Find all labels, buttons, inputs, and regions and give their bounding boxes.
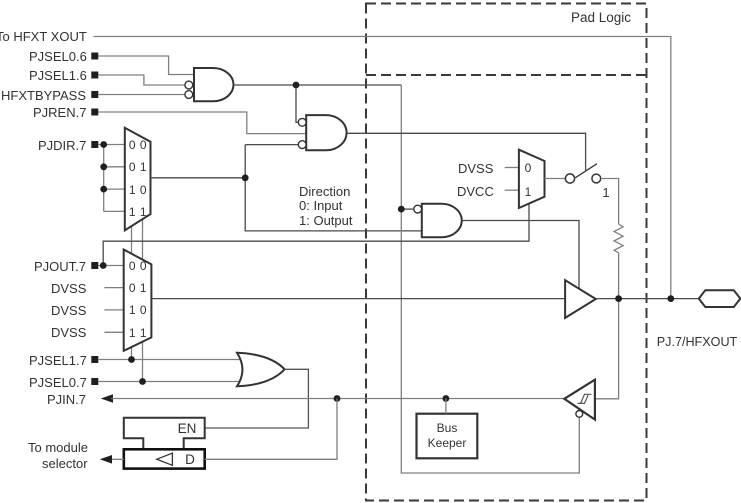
wire pad net [596,298,699,300]
output buffer U1 [565,280,596,318]
wire bus keeper stub [445,399,447,414]
bubble G2 input A [298,118,306,126]
wire PJSEL0.6 to AND1 input A [98,56,194,75]
mux M2 row label 01 [129,282,147,294]
junction PJIN to D latch [334,395,341,402]
label selector [42,457,88,470]
wire D latch output to module selector [111,458,124,460]
bubble G3 input A [414,205,422,213]
mux M2 PJOUT body [124,250,152,351]
junction PJOUT.7 [100,262,107,269]
latch L1 clock triangle [157,453,173,465]
mux M3 row label 1 [524,186,531,198]
mux M2 row label 11 [129,327,147,339]
terminal square PJOUT.7 [91,262,98,269]
resistor R1 pull [614,224,623,253]
wire DVSS row 01 stub [104,287,123,289]
label Bus [437,422,458,434]
switch S1 lever [575,164,597,178]
label DVSS row 11 [51,326,86,339]
junction PJDIR row 01 [100,163,107,170]
junction G3 input A on enable net [398,206,405,213]
label PJ.7/HFXOUT [657,336,737,349]
wire PJIN.7 net [111,398,564,400]
wire PJSEL0.7 select vertical (under mux bodies) [142,217,144,382]
schmitt trigger U2 input buffer [564,380,595,420]
label Keeper [428,437,467,449]
mux M1 row label 00 [129,139,147,151]
wire G1 output [234,84,402,86]
schmitt hysteresis symbol [578,394,592,403]
bubble G1 input B [185,81,193,89]
junction G1 output [293,82,300,89]
label PJREN.7 [33,106,86,119]
dashed line Pad Logic inner top [366,74,647,76]
wire G1 output branch to AND2 input A [296,85,298,122]
wire PJSEL1.7 to OR1 input A [98,359,241,361]
junction PJIN to bus keeper [443,395,450,402]
label DVCC mux M3 [457,185,494,198]
junction pad net HFXT branch [667,295,674,302]
terminal square HFXTBYPASS [91,91,98,98]
box Bus Keeper [417,414,478,459]
label DVSS mux M3 [458,162,493,175]
bubble G1 input C [185,91,193,99]
wire D latch input from PJIN [205,399,337,460]
latch L1 EN label [178,422,197,436]
label PJIN.7 [47,393,86,406]
bubble G2 input C [298,141,306,149]
bubble schmitt enable [576,411,583,418]
label switch position 1 [602,186,609,199]
wire PJREN.7 to AND2 input B [98,112,306,134]
wire PJOUT.7 row 00 [98,265,123,267]
label PJSEL1.6 [29,69,87,82]
terminal square PJSEL0.6 [91,53,98,60]
junction PJDIR row 00 [100,141,107,148]
wire DVCC stub mux M3 [505,189,519,191]
wire PJSEL1.6 to AND1 input B [98,75,185,85]
wire PJOUT.7 to mux M3 select [103,204,529,266]
latch L1 D section [124,449,205,468]
wire OR1 output to EN [205,369,309,428]
mux M1 row label 11 [129,206,147,218]
wire direction net vertical to AND2 and AND3 [245,145,422,231]
junction direction net [242,174,249,181]
wire G1 output vertical to Schmitt enable [401,85,579,473]
wire PJDIR.7 row 11 [104,210,125,212]
wire DVSS row 11 stub [104,331,123,333]
mux M3 pull resistor select body [519,150,545,208]
wire PJSEL1.7 select vertical (under mux bodies) [131,224,133,360]
terminal square PJSEL0.7 [91,378,98,385]
label To module [28,441,88,454]
and-gate G1 (PJSEL decode) [194,68,234,101]
mux M1 row label 01 [129,161,147,173]
wire resistor to pad net and Schmitt input [595,253,619,399]
wire switch to resistor [601,179,619,225]
wire mux M2 output to output buffer [151,298,565,300]
mux M2 row label 00 [129,260,147,272]
latch L1 D label [185,453,195,467]
wire To HFXT XOUT net [94,37,671,299]
arrow PJIN.7 [101,394,113,403]
wire G3 input A stub [401,208,414,210]
latch L1 EN section [124,418,205,450]
switch S1 left contact [565,174,574,183]
label PJSEL1.7 [29,354,87,367]
wire G3 output to output buffer enable [462,221,579,289]
arrow to module selector [100,455,112,464]
terminal square PJSEL1.6 [91,72,98,79]
wire DVSS stub mux M3 [505,167,519,169]
and-gate G2 (bypass gate) [306,115,346,150]
mux M1 row label 10 [129,184,147,196]
wire PJDIR.7 row 10 [104,188,125,190]
mux M2 row label 10 [129,304,147,316]
switch S1 right contact [592,174,601,183]
wire HFXTBYPASS to AND1 input C [98,94,185,96]
terminal square PJDIR.7 [91,141,98,148]
mux M3 row label 0 [524,162,531,174]
label PJDIR.7 [38,139,86,152]
mux M1 PJDIR body [125,128,151,231]
wire direction net to AND2 input C bubble [245,144,298,146]
label Pad Logic [570,11,630,25]
label PJSEL0.6 [29,50,87,63]
wire PJDIR.7 bus vertical [103,145,105,212]
label PJOUT.7 [34,260,86,273]
wire mux M3 output to switch [545,178,566,180]
junction PJSEL1.7 [128,356,135,363]
pad pin hexagon PJ.7/HFXOUT [699,290,741,307]
junction PJSEL0.7 [139,378,146,385]
wire DVSS row 10 stub [104,309,123,311]
and-gate G3 (REN gate) [422,204,462,238]
terminal square PJREN.7 [91,109,98,116]
wire PJSEL0.7 to OR1 input B [98,381,241,383]
wire PJDIR.7 row 01 [104,166,125,168]
terminal square PJSEL1.7 [91,356,98,363]
label HFXTBYPASS [1,89,86,102]
dashed box Pad Logic outer [366,4,647,501]
junction PJDIR row 10 [100,186,107,193]
note Direction annotation [299,185,350,198]
label To HFXT XOUT [0,30,87,43]
wire mux M1 output (direction net) [151,177,246,179]
wire PJDIR.7 row 00 [98,144,125,146]
or-gate OR1 [237,353,285,387]
label PJSEL0.7 [29,376,87,389]
junction pad net resistor [615,295,622,302]
wire G2 output to switch control [347,133,586,170]
label DVSS row 10 [51,304,86,317]
label DVSS row 01 [51,282,86,295]
